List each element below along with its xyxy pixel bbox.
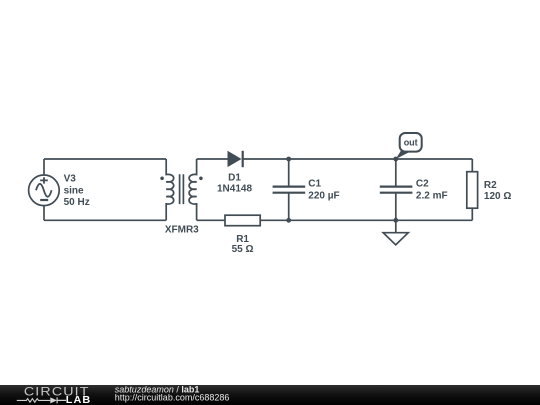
svg-text:120 Ω: 120 Ω (484, 191, 511, 202)
svg-text:2.2 mF: 2.2 mF (416, 190, 448, 201)
V3 minus sign (40, 199, 48, 201)
V3 plus sign (40, 177, 48, 183)
transformer XFMR3 right winding (189, 159, 197, 220)
footer bar (0, 385, 540, 405)
resistor R2 body (467, 172, 478, 209)
wire bottom rail R1 to R2 (260, 219, 472, 221)
V3 sine wave (36, 184, 52, 197)
wire primary top rail (44, 158, 166, 160)
wire top rail diode to R2 corner (243, 158, 473, 160)
node dot top C1 (286, 157, 291, 162)
svg-text:50 Hz: 50 Hz (64, 197, 90, 208)
diode D1 triangle (228, 151, 242, 167)
CircuitLab logo resistor-diode squiggle (17, 399, 51, 403)
node dot bottom C1 (286, 218, 291, 223)
svg-text:D1: D1 (228, 173, 241, 184)
wire secondary bottom to R1 (197, 219, 225, 221)
ground symbol (383, 233, 408, 245)
wire source bottom stub (43, 206, 45, 221)
wire secondary top to diode (197, 158, 228, 160)
transformer left polarity dot (160, 177, 164, 181)
diode D1 cathode bar (242, 151, 244, 167)
capacitor C2 plates (380, 187, 413, 193)
node dot bottom C2 (393, 218, 398, 223)
capacitor C1 top stub (288, 159, 290, 187)
out flag box (400, 133, 422, 152)
svg-text:R2: R2 (484, 180, 497, 191)
CircuitLab logo diode symbol (50, 397, 57, 403)
node dot out (393, 157, 398, 162)
capacitor C1 bottom stub (288, 193, 290, 221)
svg-text:out: out (404, 138, 418, 148)
wire primary bottom rail (44, 219, 166, 221)
svg-text:sine: sine (64, 185, 84, 196)
voltage source V3 circle (29, 175, 60, 206)
wire source top stub (43, 159, 45, 175)
resistor R2 top stub (471, 159, 473, 172)
capacitor C2 top stub (395, 159, 397, 187)
svg-text:C1: C1 (308, 179, 321, 190)
svg-text:1N4148: 1N4148 (217, 184, 252, 195)
svg-text:http://circuitlab.com/c688286: http://circuitlab.com/c688286 (115, 392, 230, 402)
svg-text:LAB: LAB (66, 395, 92, 405)
svg-text:V3: V3 (64, 174, 77, 185)
svg-text:220 µF: 220 µF (308, 190, 339, 201)
transformer core lines (180, 174, 184, 204)
capacitor C2 bottom stub (395, 193, 397, 221)
wire ground stub (395, 220, 397, 232)
transformer XFMR3 left winding (166, 159, 174, 220)
resistor R2 bottom stub (471, 208, 473, 220)
svg-text:XFMR3: XFMR3 (165, 224, 199, 235)
svg-text:C2: C2 (416, 179, 429, 190)
out flag pointer (396, 151, 410, 159)
svg-text:55 Ω: 55 Ω (232, 244, 254, 255)
resistor R1 body (225, 215, 260, 226)
capacitor C1 plates (273, 187, 306, 193)
transformer right polarity dot (199, 177, 203, 181)
